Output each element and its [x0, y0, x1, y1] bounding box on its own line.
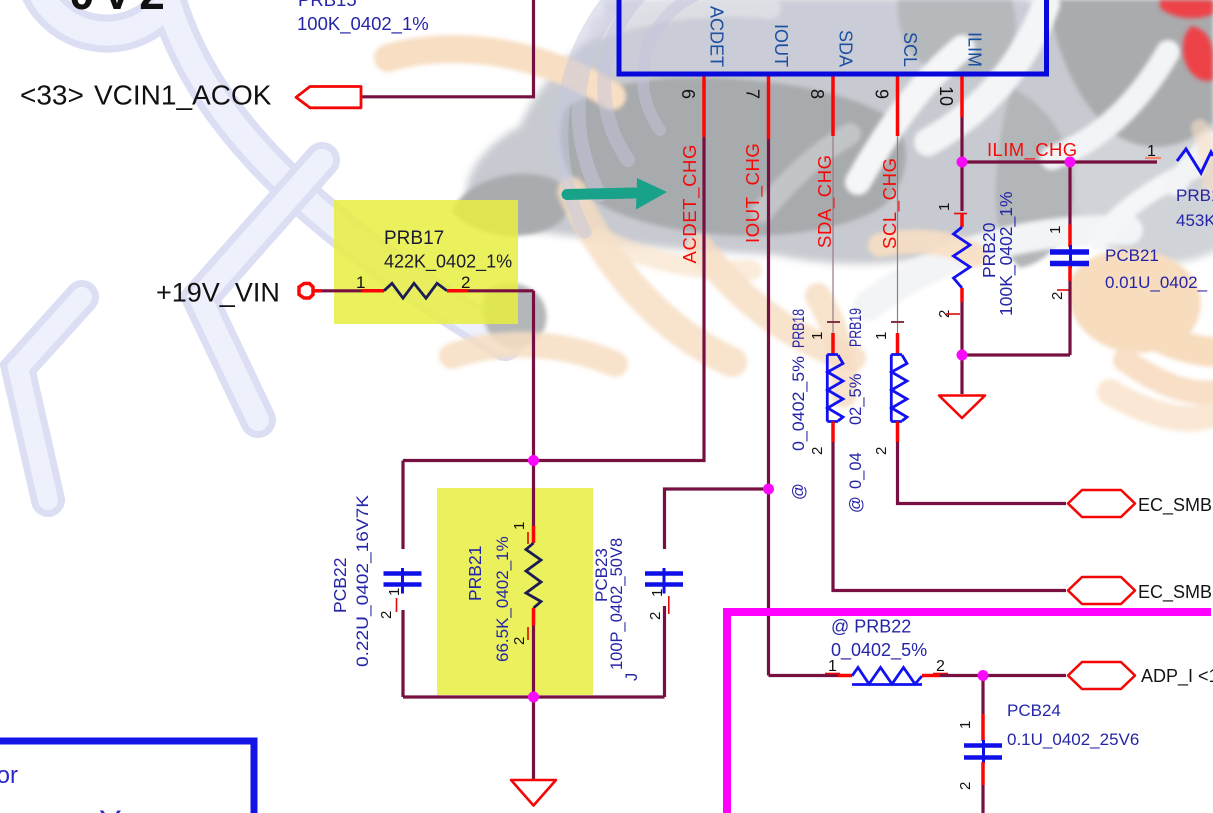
- svg-text:PRB17: PRB17: [384, 228, 444, 249]
- IC U1 charger box: [619, 0, 1047, 74]
- svg-text:@ PRB22: @ PRB22: [831, 617, 911, 637]
- capacitor PCB24: [957, 676, 1139, 813]
- note box bottom-left: [0, 741, 254, 813]
- svg-text:100K_0402_1%: 100K_0402_1%: [297, 13, 429, 35]
- lavender loop top-left with diagonal tail: [18, 0, 505, 500]
- svg-text:66.5K_0402_1%: 66.5K_0402_1%: [493, 536, 512, 662]
- svg-text:J: J: [623, 673, 641, 681]
- pin 7 red stub: [767, 77, 771, 140]
- svg-text:100P_0402_50V8: 100P_0402_50V8: [608, 538, 626, 670]
- lavender chevron left small: [18, 297, 82, 500]
- svg-text:2: 2: [873, 447, 890, 455]
- wire ILIM to junction: [960, 117, 963, 162]
- svg-text:0_0402_5%: 0_0402_5%: [790, 356, 808, 451]
- gray blob top middle-right: [897, 0, 1015, 77]
- highlight box PRB17: [334, 200, 518, 324]
- ground symbol under PRB20: [939, 396, 985, 419]
- gray band right of ILIM: [995, 88, 1073, 268]
- svg-text:0_0402_5%: 0_0402_5%: [831, 640, 927, 661]
- svg-text:ACDET_CHG: ACDET_CHG: [679, 144, 701, 264]
- junction ILIM right: [1065, 157, 1076, 168]
- svg-text:<33>: <33>: [20, 80, 84, 111]
- resistor PRB21: [465, 461, 541, 698]
- svg-text:0.01U_0402_: 0.01U_0402_: [1105, 273, 1208, 292]
- svg-text:ACDET: ACDET: [707, 6, 727, 67]
- resistor PRB16 partial right edge: [1145, 143, 1213, 230]
- pin 9 red stub: [896, 77, 900, 137]
- wire SCL thin segment: [897, 136, 899, 333]
- wire PRB19 to EC hexagon 1: [898, 442, 1067, 504]
- wire to ground PRB21: [532, 697, 535, 779]
- svg-text:1: 1: [828, 658, 837, 675]
- hexagon port EC_SMB 2: [1068, 577, 1135, 604]
- svg-text:100K_0402_1%: 100K_0402_1%: [996, 191, 1017, 316]
- svg-text:02_5%: 02_5%: [847, 373, 865, 425]
- svg-text:SDA: SDA: [836, 30, 856, 67]
- wire PRB18 to EC hexagon 2: [833, 442, 1066, 591]
- gray beak lobe: [452, 174, 570, 236]
- svg-text:9: 9: [872, 89, 892, 99]
- wire from VCIN1_ACOK arrow up to PRB15: [362, 0, 534, 97]
- svg-text:422K_0402_1%: 422K_0402_1%: [384, 252, 512, 273]
- svg-text:PRB15: PRB15: [298, 0, 357, 10]
- pin 8 red stub: [831, 77, 835, 137]
- wire IOUT vertical: [767, 139, 770, 676]
- svg-text:PCB24: PCB24: [1007, 701, 1061, 720]
- svg-text:PRB19: PRB19: [847, 308, 865, 347]
- svg-text:PCB21: PCB21: [1105, 246, 1159, 265]
- svg-text:1: 1: [809, 332, 826, 340]
- svg-text:1: 1: [873, 332, 890, 340]
- junction ILIM left: [957, 157, 968, 168]
- gray dark right-top: [1048, 0, 1213, 147]
- gray comma lobe below beak: [483, 283, 547, 348]
- capacitor PCB22: [330, 461, 422, 698]
- svg-text:1: 1: [957, 721, 974, 729]
- svg-text:0.22U_0402_16V7K: 0.22U_0402_16V7K: [353, 494, 372, 667]
- svg-text:PCB22: PCB22: [330, 558, 350, 613]
- svg-text:PRB1: PRB1: [1176, 186, 1213, 205]
- svg-text:2: 2: [936, 658, 945, 675]
- wire ILIM_CHG horizontal: [962, 160, 1157, 163]
- wire to ground PRB20: [960, 355, 963, 394]
- bottom wire PCB22-PRB21-PCB23: [403, 695, 665, 698]
- resistor PRB19: [847, 308, 907, 513]
- wire PRB22 to ADP hexagon: [940, 674, 1066, 677]
- svg-text:0.1U_0402_25V6: 0.1U_0402_25V6: [1007, 730, 1139, 749]
- resistor PRB22: [825, 617, 948, 685]
- junction PRB20 bottom: [957, 350, 968, 361]
- svg-text:@: @: [790, 483, 808, 500]
- wire PRB20 bottom to PCB21 bottom: [962, 353, 1070, 356]
- resistor PRB17: [313, 228, 534, 298]
- port arrow VCIN1_ACOK: [296, 87, 361, 108]
- gray dark lobe center (behind arrow): [561, 77, 906, 236]
- ground symbol under PRB21: [511, 780, 556, 806]
- svg-text:IOUT: IOUT: [771, 24, 791, 67]
- svg-text:tor: tor: [0, 762, 18, 789]
- wire IOUT to PRB22: [769, 674, 839, 677]
- svg-text:2: 2: [809, 447, 826, 455]
- svg-text:1: 1: [1047, 226, 1064, 234]
- magenta bus: [727, 612, 1211, 813]
- svg-text:PRB21: PRB21: [465, 546, 485, 601]
- terminal circle +19V_VIN: [299, 284, 313, 299]
- svg-text:10: 10: [936, 86, 956, 106]
- junction node A: [528, 455, 539, 466]
- svg-text:6: 6: [678, 89, 698, 99]
- svg-text:7: 7: [743, 89, 763, 99]
- svg-text:1: 1: [511, 522, 528, 530]
- svg-text:0V2: 0V2: [69, 0, 172, 19]
- wire PRB17 down to junction: [532, 291, 535, 461]
- svg-text:ILIM_CHG: ILIM_CHG: [987, 139, 1078, 161]
- svg-text:0_04: 0_04: [847, 452, 865, 489]
- svg-text:2: 2: [1049, 292, 1066, 300]
- svg-text:1: 1: [936, 203, 953, 211]
- capacitor PCB23: [592, 489, 769, 697]
- lavender chevron mid-left large: [200, 160, 322, 420]
- capacitor PCB21: [1047, 162, 1208, 355]
- svg-text:PRB18: PRB18: [790, 309, 808, 348]
- svg-text:SCL: SCL: [900, 32, 920, 67]
- svg-text:ILIM: ILIM: [965, 32, 985, 67]
- resistor PRB18: [790, 309, 843, 500]
- pin 10 red stub: [960, 77, 964, 118]
- svg-text:IOUT_CHG: IOUT_CHG: [742, 143, 764, 243]
- svg-text:2: 2: [511, 637, 528, 645]
- junction IOUT: [763, 484, 774, 495]
- svg-text:2: 2: [378, 611, 395, 619]
- svg-text:2: 2: [957, 782, 974, 790]
- svg-text:1: 1: [649, 589, 666, 597]
- highlight box PRB21: [437, 488, 593, 695]
- svg-text:@: @: [847, 496, 865, 513]
- lavender tint inside IC box: [605, 0, 1025, 72]
- white swirls through gray: [600, 4, 1213, 306]
- svg-text:EC_SMBC: EC_SMBC: [1138, 582, 1213, 603]
- svg-text:+19V_VIN: +19V_VIN: [156, 278, 280, 308]
- svg-text:8: 8: [807, 89, 827, 99]
- peach swooshes: [388, 49, 1213, 419]
- svg-text:1: 1: [386, 588, 403, 596]
- svg-text:Y: Y: [99, 804, 122, 813]
- wire ACDET vertical+horizontal to junction: [403, 137, 704, 461]
- svg-text:453K: 453K: [1176, 211, 1213, 230]
- hexagon port EC_SMB 1: [1068, 490, 1135, 517]
- red watermark top-right corner: [1160, 0, 1213, 18]
- svg-text:EC_SMBD: EC_SMBD: [1138, 495, 1213, 516]
- svg-text:ADP_I <1: ADP_I <1: [1141, 666, 1213, 687]
- wire SDA thin segment: [832, 136, 834, 333]
- junction ADP_I: [978, 670, 989, 681]
- resistor PRB20: [936, 162, 1017, 355]
- svg-text:VCIN1_ACOK: VCIN1_ACOK: [94, 80, 272, 111]
- gray base mass: [467, 0, 1213, 264]
- hexagon port ADP_I: [1068, 662, 1135, 689]
- pin 6 red stub: [702, 77, 706, 138]
- lavender arcs near IC box: [562, 0, 820, 232]
- teal annotation arrow: [567, 178, 667, 210]
- junction bottom: [528, 692, 539, 703]
- svg-text:2: 2: [647, 612, 664, 620]
